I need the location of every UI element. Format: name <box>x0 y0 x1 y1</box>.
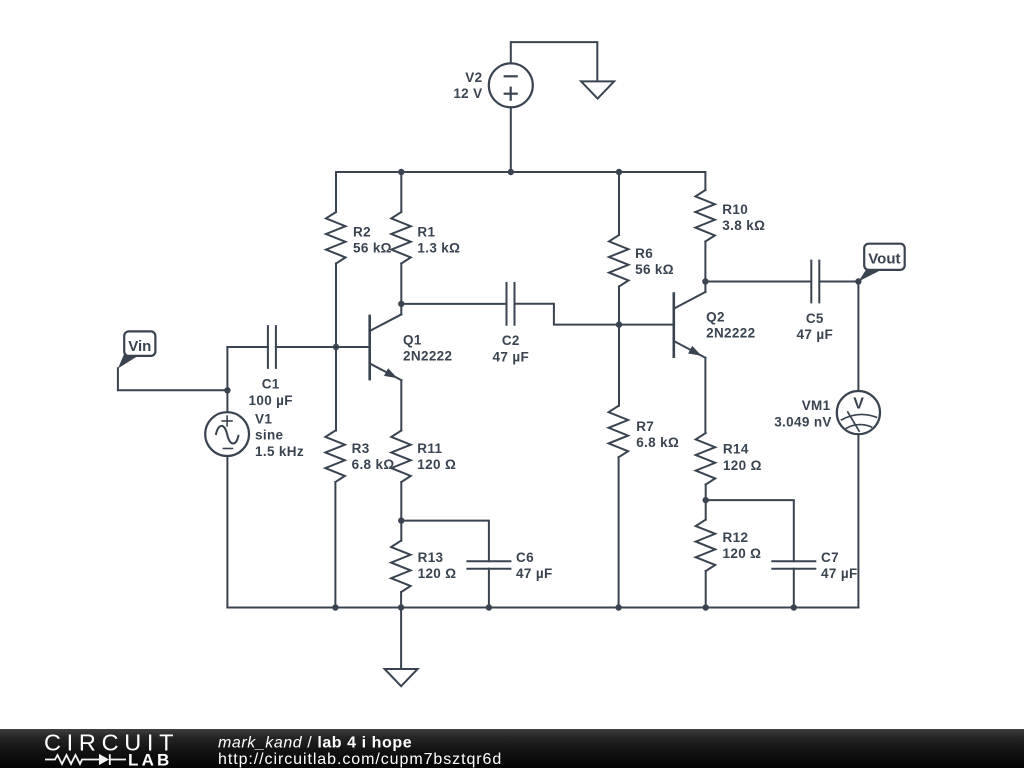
svg-text:Q2: Q2 <box>706 310 725 325</box>
wire Vout to VM1 <box>857 282 859 392</box>
wire C5 right <box>819 281 858 283</box>
svg-text:1.3 kΩ: 1.3 kΩ <box>417 241 460 256</box>
wire R7 to rail <box>618 457 620 607</box>
svg-text:6.8 kΩ: 6.8 kΩ <box>352 457 395 472</box>
logo resistor-diode glyph <box>45 754 126 765</box>
resistor R10 <box>695 190 715 242</box>
svg-text:6.8 kΩ: 6.8 kΩ <box>636 435 679 450</box>
svg-text:12 V: 12 V <box>453 86 482 101</box>
svg-text:R6: R6 <box>635 246 653 261</box>
svg-text:47 µF: 47 µF <box>516 566 553 581</box>
node Q2 collector node <box>702 278 708 284</box>
svg-text:R1: R1 <box>417 224 435 239</box>
svg-text:C2: C2 <box>502 333 520 348</box>
resistor R2 <box>326 212 346 264</box>
svg-text:C1: C1 <box>262 377 280 392</box>
wire Q1 emitter to R11 <box>400 380 402 430</box>
svg-text:sine: sine <box>255 428 284 443</box>
wire base Q1 <box>336 346 370 348</box>
resistor R3 <box>325 431 345 483</box>
svg-text:120 Ω: 120 Ω <box>418 566 457 581</box>
wire C6 bottom <box>488 569 490 608</box>
wire rail to R6 <box>618 172 620 235</box>
flag Vin <box>118 355 140 369</box>
wire R10 to collector node <box>704 242 706 282</box>
svg-text:R10: R10 <box>722 202 748 217</box>
svg-text:2N2222: 2N2222 <box>706 326 755 341</box>
svg-text:V1: V1 <box>255 411 272 426</box>
node R14-R12-C7 node <box>703 497 709 503</box>
wire R6 to R7 <box>618 287 620 406</box>
wire C1 right <box>276 346 336 348</box>
capacitor C7 <box>771 560 816 562</box>
wire input column <box>226 347 228 412</box>
node rail-R7 <box>615 604 621 610</box>
svg-text:1.5 kHz: 1.5 kHz <box>255 444 304 459</box>
wire C7 bottom <box>793 569 795 608</box>
transistor Q1 <box>368 315 371 381</box>
svg-text:LAB: LAB <box>128 750 173 768</box>
wire R13 to rail <box>400 592 402 607</box>
svg-text:Q1: Q1 <box>403 333 422 348</box>
flag Vout <box>858 269 882 281</box>
node rail-V2 <box>508 169 514 175</box>
svg-text:100 µF: 100 µF <box>248 393 292 408</box>
svg-text:R2: R2 <box>353 224 371 239</box>
resistor R12 <box>696 520 716 572</box>
wire R12 to rail <box>705 571 707 607</box>
ground bottom <box>385 669 418 686</box>
node rail-R6 <box>616 169 622 175</box>
svg-text:2N2222: 2N2222 <box>403 349 452 364</box>
wire C2 to Q2 base <box>515 304 674 325</box>
voltage source V2 <box>489 63 533 107</box>
capacitor C5 <box>810 260 812 304</box>
svg-text:56 kΩ: 56 kΩ <box>353 241 392 256</box>
svg-text:R14: R14 <box>723 442 749 457</box>
capacitor C1 <box>267 325 269 369</box>
wire Q2 collector stub <box>704 282 706 293</box>
wire to C7 top <box>706 500 794 561</box>
node rail-R3 <box>332 604 338 610</box>
wire Q1 collector stub <box>400 304 402 315</box>
wire top supply rail <box>336 172 705 212</box>
wire C1 left <box>227 346 268 348</box>
svg-text:R3: R3 <box>352 441 370 456</box>
wire R14 to R12 <box>705 485 707 520</box>
node rail-C6 <box>486 604 492 610</box>
svg-text:C5: C5 <box>806 311 824 326</box>
transistor Q2 <box>672 292 675 358</box>
svg-text:R11: R11 <box>417 441 442 456</box>
wire C2 left <box>401 303 506 305</box>
resistor R7 <box>609 406 629 458</box>
svg-text:VM1: VM1 <box>802 398 831 413</box>
wire Vin to V1 <box>118 368 227 390</box>
svg-text:C6: C6 <box>516 550 534 565</box>
wire V2 top to ground <box>511 42 598 81</box>
capacitor C6 <box>466 560 511 562</box>
wire R2 to R3 <box>335 264 337 431</box>
svg-text:47 µF: 47 µF <box>821 566 858 581</box>
capacitor C2 <box>506 282 508 326</box>
node rail-gnd <box>398 604 404 610</box>
svg-text:120 Ω: 120 Ω <box>417 457 456 472</box>
svg-text:120 Ω: 120 Ω <box>723 546 762 561</box>
resistor R6 <box>609 235 629 287</box>
svg-text:Vin: Vin <box>128 338 151 355</box>
resistor R13 <box>391 541 411 593</box>
svg-text:http://circuitlab.com/cupm7bsz: http://circuitlab.com/cupm7bsztqr6d <box>218 751 502 768</box>
wire V2 to rail <box>510 107 512 172</box>
wire VM1 to rail <box>857 434 859 607</box>
node Q1 base junction <box>333 344 339 350</box>
node Q2 base junction <box>616 321 622 327</box>
wire R3 to rail <box>334 482 336 608</box>
svg-text:3.8 kΩ: 3.8 kΩ <box>722 218 765 233</box>
wire R1 to Q1 collector <box>400 264 402 304</box>
wire rail to R1 <box>400 172 402 212</box>
wire bottom rail <box>227 607 858 609</box>
wire to C6 top <box>401 521 489 562</box>
svg-text:56 kΩ: 56 kΩ <box>635 262 674 277</box>
wire R11 to R13 <box>400 482 402 541</box>
wire to bottom ground <box>400 608 402 670</box>
svg-text:R13: R13 <box>418 550 444 565</box>
svg-text:47 µF: 47 µF <box>797 327 834 342</box>
svg-text:R7: R7 <box>636 419 654 434</box>
node Q1 collector node <box>398 301 404 307</box>
node R11-R13-C6 node <box>398 517 404 523</box>
node rail-R12 <box>703 604 709 610</box>
node rail-R1 <box>398 169 404 175</box>
resistor R1 <box>391 212 411 264</box>
resistor R14 <box>696 433 716 485</box>
svg-text:mark_kand / lab 4 i hope: mark_kand / lab 4 i hope <box>218 735 412 752</box>
svg-text:V2: V2 <box>465 70 482 85</box>
voltage source V1 <box>205 412 249 456</box>
svg-text:47 µF: 47 µF <box>493 349 530 364</box>
node input node <box>224 387 230 393</box>
svg-text:Vout: Vout <box>868 251 900 268</box>
svg-text:V: V <box>853 395 864 412</box>
ground top <box>581 81 614 98</box>
svg-text:C7: C7 <box>821 550 839 565</box>
svg-text:120 Ω: 120 Ω <box>723 458 762 473</box>
svg-text:3.049 nV: 3.049 nV <box>774 414 832 429</box>
node Vout node <box>855 278 861 284</box>
wire V1 to bottom rail <box>226 456 228 608</box>
wire Q2 emitter to R14 <box>704 358 706 433</box>
wire C5 left <box>705 281 811 283</box>
resistor R11 <box>391 431 411 483</box>
svg-text:R12: R12 <box>723 530 749 545</box>
node rail-C7 <box>791 604 797 610</box>
